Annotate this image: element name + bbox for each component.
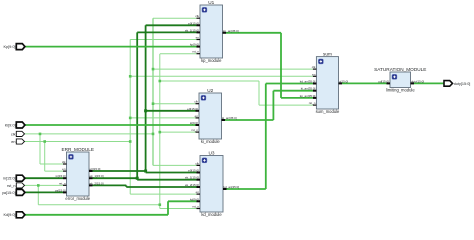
- svg-text:ek_2[15:0]: ek_2[15:0]: [185, 183, 199, 187]
- svg-text:clk: clk: [11, 132, 16, 136]
- svg-text:en: en: [312, 72, 316, 76]
- svg-text:kp_module: kp_module: [201, 58, 222, 63]
- svg-text:en: en: [195, 114, 199, 118]
- svg-text:e0[15:0]: e0[15:0]: [187, 107, 198, 111]
- svg-text:kp_an[35:0]: kp_an[35:0]: [223, 29, 239, 33]
- svg-text:clk: clk: [62, 160, 66, 164]
- svg-text:kd[9:0]: kd[9:0]: [190, 197, 199, 201]
- svg-text:ki_an[35:0]: ki_an[35:0]: [301, 87, 316, 91]
- svg-text:limiting_module: limiting_module: [386, 88, 415, 93]
- svg-text:en: en: [62, 167, 66, 171]
- svg-text:ek_1[15:0]: ek_1[15:0]: [185, 28, 199, 32]
- svg-text:kp_an[35:0]: kp_an[35:0]: [300, 94, 316, 98]
- svg-text:sum_module: sum_module: [316, 109, 340, 114]
- svg-text:rst_n: rst_n: [192, 50, 199, 54]
- svg-text:rst_n: rst_n: [191, 128, 198, 132]
- svg-text:kd_an[35:0]: kd_an[35:0]: [224, 185, 240, 189]
- svg-text:ek_1[15:0]: ek_1[15:0]: [185, 176, 199, 180]
- svg-text:ek_1[15:0]: ek_1[15:0]: [90, 174, 104, 178]
- svg-text:en: en: [196, 36, 200, 40]
- svg-text:sum: sum: [323, 51, 332, 56]
- svg-text:e0[15:0]: e0[15:0]: [188, 169, 199, 173]
- svg-text:U2: U2: [207, 88, 213, 93]
- svg-text:e0[15:0]: e0[15:0]: [188, 21, 199, 25]
- svg-text:Kd[9:0]: Kd[9:0]: [3, 213, 15, 217]
- svg-text:ya[15:0]: ya[15:0]: [2, 191, 16, 195]
- svg-text:in[15:0]: in[15:0]: [56, 174, 66, 178]
- svg-text:duty[15:0]: duty[15:0]: [411, 79, 424, 83]
- svg-text:error_module: error_module: [65, 196, 90, 201]
- svg-text:kd_module: kd_module: [201, 212, 222, 217]
- svg-text:U1: U1: [208, 0, 214, 5]
- svg-text:ki[9:0]: ki[9:0]: [190, 121, 198, 125]
- svg-text:kp[9:0]: kp[9:0]: [190, 43, 199, 47]
- svg-text:Kp[9:0]: Kp[9:0]: [3, 45, 15, 49]
- svg-text:ya[15:0]: ya[15:0]: [55, 188, 66, 192]
- svg-text:U3: U3: [209, 150, 215, 155]
- svg-text:en: en: [11, 140, 15, 144]
- svg-text:rst_n: rst_n: [59, 181, 66, 185]
- svg-text:e0[15:0]: e0[15:0]: [90, 167, 101, 171]
- svg-text:SATURATION_MODULE: SATURATION_MODULE: [374, 67, 426, 72]
- svg-text:Ki[9:0]: Ki[9:0]: [5, 123, 16, 127]
- svg-text:clk: clk: [312, 65, 316, 69]
- svg-text:duty[15:0]: duty[15:0]: [454, 82, 471, 86]
- svg-text:ud[15:0]: ud[15:0]: [378, 79, 389, 83]
- svg-text:kd_an[35:0]: kd_an[35:0]: [300, 80, 316, 84]
- svg-text:rst_n: rst_n: [7, 184, 15, 188]
- svg-text:ki_module: ki_module: [201, 139, 221, 144]
- svg-text:clk: clk: [195, 161, 199, 165]
- svg-text:rst_n: rst_n: [192, 205, 199, 209]
- svg-text:en: en: [196, 190, 200, 194]
- svg-text:clk: clk: [194, 100, 198, 104]
- svg-text:in[15:0]: in[15:0]: [3, 177, 15, 181]
- svg-text:ERR_MODULE: ERR_MODULE: [61, 147, 94, 152]
- svg-text:rst_n: rst_n: [309, 101, 316, 105]
- svg-text:ek_2[15:0]: ek_2[15:0]: [90, 181, 104, 185]
- svg-text:clk: clk: [195, 14, 199, 18]
- svg-text:u[15:0]: u[15:0]: [339, 79, 348, 83]
- svg-text:ki_an[35:0]: ki_an[35:0]: [222, 116, 237, 120]
